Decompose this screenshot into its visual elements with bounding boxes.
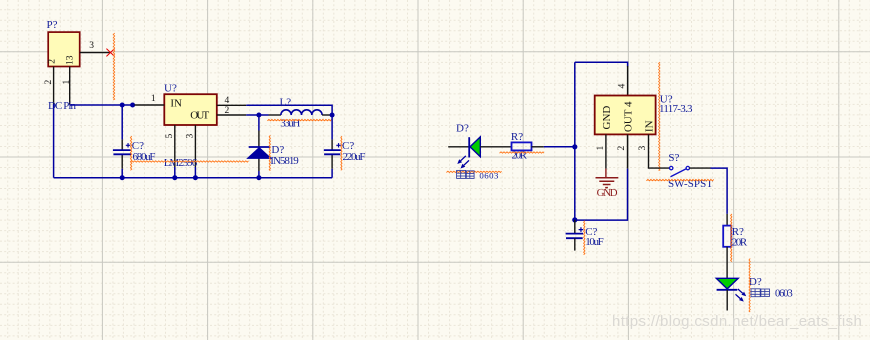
regulator U2 pin 3 bbox=[638, 134, 670, 168]
svg-text:D?: D? bbox=[749, 276, 762, 288]
compile warning squiggle (20R) bbox=[500, 152, 544, 153]
svg-text:2: 2 bbox=[617, 146, 627, 151]
compile warning squiggle (diode) bbox=[269, 135, 270, 170]
svg-text:IN: IN bbox=[170, 98, 182, 110]
capacitor C? value 220uF bbox=[343, 151, 366, 163]
LED D? green (left) bbox=[448, 137, 511, 158]
LED D? designator (bottom) bbox=[749, 276, 762, 288]
svg-text:5: 5 bbox=[165, 134, 175, 139]
resistor R? pin bottom bbox=[726, 247, 728, 278]
regulator U2 pin name GND bbox=[601, 106, 613, 130]
compile warning squiggle (C680) bbox=[130, 136, 131, 170]
diode D? designator bbox=[271, 144, 284, 156]
svg-text:2: 2 bbox=[48, 59, 58, 64]
svg-text:1117-3.3: 1117-3.3 bbox=[659, 103, 693, 115]
wire pin3 to rail bbox=[194, 167, 196, 178]
compile warning squiggle (C220) bbox=[341, 136, 342, 170]
compile warning squiggle (SW-SPST) bbox=[646, 179, 713, 180]
svg-text:U?: U? bbox=[164, 83, 177, 95]
net label DC Pin bbox=[48, 100, 77, 112]
resistor R? designator bbox=[732, 226, 744, 238]
resistor R? value 20R bbox=[732, 236, 748, 248]
connector P? pin 3 bbox=[80, 41, 110, 53]
svg-text:3: 3 bbox=[638, 146, 648, 151]
junction bbox=[130, 103, 135, 108]
LED D? designator (left LED) bbox=[456, 123, 469, 135]
svg-text:4: 4 bbox=[617, 84, 627, 89]
resistor R? value 20R bbox=[512, 150, 528, 162]
regulator U2 designator bbox=[660, 94, 673, 106]
connector P? pin 2 bbox=[44, 67, 54, 105]
wire pin5 to rail bbox=[174, 167, 176, 178]
svg-text:DC Pin: DC Pin bbox=[48, 100, 77, 112]
svg-text:220uF: 220uF bbox=[343, 151, 366, 163]
svg-text:2: 2 bbox=[44, 80, 54, 85]
junction bbox=[256, 113, 261, 118]
wire switch to resistor bbox=[689, 168, 727, 214]
diode D? value IN5819 bbox=[270, 155, 299, 167]
ground symbol GND bbox=[596, 169, 619, 199]
wire DC Pin net bbox=[70, 104, 135, 106]
no-ERC marker (red X) bbox=[106, 49, 114, 57]
svg-text:1: 1 bbox=[596, 146, 606, 151]
wire pin2 to ground rail bbox=[53, 104, 55, 178]
regulator U? value LM2596 bbox=[164, 157, 198, 169]
svg-text:OUT 4: OUT 4 bbox=[623, 101, 635, 132]
svg-text:P?: P? bbox=[47, 19, 58, 31]
svg-text:S?: S? bbox=[668, 152, 679, 164]
capacitor C? 220uF branch bbox=[331, 112, 333, 178]
connector P? designator bbox=[47, 19, 58, 31]
svg-text:20R: 20R bbox=[732, 236, 748, 248]
junction cap-rail bbox=[120, 175, 125, 180]
regulator U? pin name OUT bbox=[190, 109, 209, 121]
capacitor C? designator bbox=[342, 140, 354, 152]
connector P? inner pin names 1 3 bbox=[65, 55, 75, 65]
regulator U2 value 1117-3.3 bbox=[659, 103, 693, 115]
compile warning squiggle (10uF) bbox=[584, 221, 585, 255]
compile warning squiggle (LED2) bbox=[749, 259, 750, 313]
resistor R? designator (series) bbox=[511, 131, 523, 143]
svg-text:33uH: 33uH bbox=[280, 117, 300, 129]
wire left vertical riser bbox=[574, 62, 576, 220]
switch S? SW-SPST bbox=[670, 166, 690, 176]
svg-text:R?: R? bbox=[511, 131, 523, 143]
regulator U? pin 4 bbox=[217, 96, 247, 106]
svg-text:D?: D? bbox=[456, 123, 469, 135]
connector P? pin 1 bbox=[62, 67, 72, 105]
wire resistor to node bbox=[532, 146, 575, 148]
wire pin2 down and left bbox=[575, 169, 628, 221]
capacitor C? designator bbox=[132, 140, 144, 152]
svg-text:LM2596: LM2596 bbox=[164, 157, 198, 169]
junction pin3 bbox=[193, 175, 198, 180]
regulator U? designator bbox=[164, 83, 177, 95]
svg-text:20R: 20R bbox=[512, 150, 528, 162]
junction output node bbox=[330, 113, 335, 118]
compile warning squiggle (R2) bbox=[731, 214, 732, 262]
ground rail wire bbox=[54, 177, 333, 179]
svg-text:https://blog.csdn.net/bear_eat: https://blog.csdn.net/bear_eats_fish bbox=[612, 313, 862, 330]
regulator U? LM2596 body bbox=[164, 94, 217, 125]
LED D? green (bottom) bbox=[716, 278, 738, 310]
svg-text:GND: GND bbox=[597, 187, 618, 199]
regulator U2 pin 2 bbox=[617, 134, 628, 168]
svg-text:13: 13 bbox=[65, 55, 75, 65]
svg-text:4: 4 bbox=[225, 96, 230, 106]
regulator U? pin 1 bbox=[135, 94, 165, 105]
compile warning squiggle (LED1 value) bbox=[446, 171, 501, 172]
capacitor C? 220uF plates bbox=[324, 143, 341, 154]
wire top to pin 4 bbox=[575, 62, 628, 66]
regulator U? pin 5 bbox=[165, 125, 175, 167]
diode D? IN5819 bbox=[248, 147, 272, 158]
capacitor C? designator bbox=[585, 226, 597, 238]
svg-text:680uF: 680uF bbox=[133, 151, 156, 163]
resistor R? 20R body (vertical) bbox=[723, 226, 731, 247]
switch S? value SW-SPST bbox=[668, 178, 713, 190]
svg-text:3: 3 bbox=[185, 134, 195, 139]
svg-text:OUT: OUT bbox=[190, 109, 209, 121]
LED D? value green 0603 bbox=[457, 170, 499, 180]
resistor R? 20R body bbox=[512, 142, 532, 150]
diode D? branch wire bbox=[258, 115, 260, 178]
regulator U? pin name IN bbox=[170, 98, 182, 110]
junction bbox=[120, 103, 125, 108]
watermark bbox=[612, 313, 862, 330]
junction pin5 bbox=[172, 175, 177, 180]
svg-text:2: 2 bbox=[225, 106, 230, 116]
compile warning squiggle (33uH) bbox=[267, 119, 331, 120]
switch S? designator bbox=[668, 152, 679, 164]
junction diode-rail bbox=[256, 175, 261, 180]
svg-text:L?: L? bbox=[280, 96, 292, 108]
wire pin4 to output node bbox=[246, 105, 332, 112]
connector P? inner pin name 2 bbox=[48, 59, 58, 64]
junction LED node bbox=[572, 144, 577, 149]
resistor R? (vertical) pin top bbox=[726, 214, 728, 226]
svg-text:3: 3 bbox=[89, 41, 94, 51]
compile warning squiggle (pin 3 net) bbox=[113, 33, 114, 100]
svg-text:0603: 0603 bbox=[479, 171, 499, 181]
wire pin2 to inductor bbox=[246, 114, 268, 116]
compile warning squiggle (U2 right) bbox=[659, 62, 660, 171]
LED D? value green 0603 (bottom) bbox=[751, 289, 793, 300]
svg-text:0603: 0603 bbox=[775, 289, 793, 300]
compile warning squiggle (value) bbox=[130, 161, 248, 162]
regulator U2 1117-3.3 body bbox=[595, 96, 656, 135]
LED D? emission arrows bbox=[457, 156, 469, 169]
svg-text:10uF: 10uF bbox=[585, 236, 604, 248]
inductor L? value 33uH bbox=[280, 117, 300, 129]
svg-text:1: 1 bbox=[151, 94, 156, 104]
LED D? emission arrows (bottom) bbox=[736, 289, 747, 302]
capacitor C? value 680uF bbox=[133, 151, 156, 163]
regulator U2 pin 4 bbox=[617, 66, 627, 96]
regulator U2 pin 1 bbox=[596, 134, 606, 168]
capacitor C? 680uF branch bbox=[121, 105, 123, 178]
connector P? body bbox=[48, 32, 79, 66]
svg-text:IN: IN bbox=[643, 120, 655, 132]
capacitor C? 680uF plates bbox=[113, 143, 132, 154]
capacitor C? value 10uF bbox=[585, 236, 604, 248]
svg-text:IN5819: IN5819 bbox=[270, 155, 299, 167]
regulator U2 pin name OUT 4 bbox=[623, 101, 635, 132]
junction cap node bbox=[572, 217, 577, 222]
svg-text:GND: GND bbox=[601, 106, 613, 130]
svg-text:1: 1 bbox=[62, 80, 72, 85]
regulator U? pin 3 bbox=[185, 125, 195, 167]
capacitor C? 10uF bbox=[566, 220, 584, 251]
inductor L? designator bbox=[280, 96, 292, 108]
inductor L? 33uH bbox=[269, 110, 333, 115]
regulator U? pin 2 bbox=[217, 106, 247, 116]
regulator U2 pin name IN bbox=[643, 120, 655, 132]
